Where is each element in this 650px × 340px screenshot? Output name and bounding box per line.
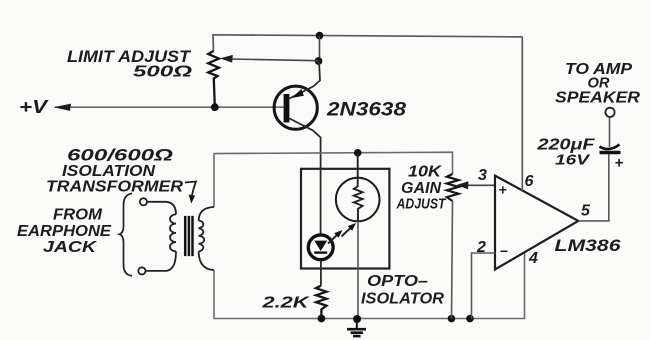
svg-text:TRANSFORMER: TRANSFORMER (46, 179, 183, 196)
svg-text:+V: +V (19, 97, 49, 117)
svg-text:2N3638: 2N3638 (326, 100, 407, 121)
resistor 2.2K (316, 286, 327, 319)
+V arrowhead (54, 104, 72, 111)
node junction pot bottom (448, 315, 456, 323)
core (185, 216, 192, 256)
svg-text:JACK: JACK (43, 239, 98, 256)
svg-text:2: 2 (476, 239, 486, 256)
node junction top rail (316, 32, 324, 40)
node junction photoresistor top (354, 149, 362, 157)
transformer pointer arrow (185, 182, 196, 196)
svg-text:10K: 10K (408, 164, 443, 181)
ground (347, 319, 366, 336)
svg-text:600/600Ω: 600/600Ω (67, 146, 173, 165)
svg-text:6: 6 (525, 173, 534, 190)
wire +V rail (55, 106, 284, 108)
svg-text:FROM: FROM (53, 207, 103, 224)
opto-isolator box (301, 169, 389, 269)
svg-text:2.2K: 2.2K (261, 295, 310, 312)
pin 6 wire (521, 37, 523, 191)
svg-text:16V: 16V (555, 152, 592, 169)
svg-text:GAIN: GAIN (401, 180, 441, 197)
capacitor C1 220uF (600, 117, 624, 172)
svg-text:500Ω: 500Ω (133, 64, 193, 81)
terminal (top) (140, 198, 147, 205)
terminal (bottom) (138, 267, 145, 274)
wire top rail (213, 35, 522, 51)
photoresistor (opto output) (336, 153, 380, 320)
pin 5 wire (578, 154, 609, 221)
wire bottom rail (214, 252, 525, 319)
svg-text:EARPHONE: EARPHONE (17, 223, 112, 240)
primary winding (147, 202, 176, 215)
potentiometer wiper arrow (limit adjust) (230, 59, 319, 61)
pin 2 wire (472, 253, 496, 319)
svg-text:SPEAKER: SPEAKER (555, 90, 641, 107)
svg-text:LM386: LM386 (555, 237, 622, 255)
svg-text:−: − (500, 243, 508, 259)
svg-text:5: 5 (581, 203, 591, 220)
node junction 2.2K bottom (318, 315, 326, 323)
brace (120, 194, 133, 276)
resistor 10K gain adjust (447, 174, 459, 201)
node junction wiper (315, 57, 323, 65)
transistor Q1 2N3638 (274, 61, 321, 169)
node junction ground (353, 315, 361, 323)
svg-text:ADJUST: ADJUST (396, 196, 447, 213)
op-amp U1 LM386 (495, 176, 578, 270)
secondary winding (199, 221, 205, 252)
svg-text:ISOLATION: ISOLATION (62, 163, 155, 180)
resistor R1 500 ohm limit adjust (208, 51, 219, 107)
node junction +V / resistor (211, 103, 219, 111)
svg-text:OPTO–: OPTO– (367, 273, 428, 290)
light arrows (328, 223, 356, 244)
svg-text:ISOLATOR: ISOLATOR (361, 291, 444, 308)
wire mid rail (secondary top to gain pot) (214, 152, 453, 207)
wire wiper tee (319, 36, 321, 61)
transformer T1 (146, 202, 214, 271)
output terminal (605, 108, 614, 117)
potentiometer wiper arrow (gain) (464, 184, 495, 186)
svg-text:+: + (615, 155, 624, 172)
LED D1 (308, 169, 333, 286)
svg-text:4: 4 (528, 250, 538, 267)
node junction pin2 (466, 315, 474, 323)
svg-text:3: 3 (478, 167, 487, 184)
svg-text:+: + (499, 182, 507, 198)
